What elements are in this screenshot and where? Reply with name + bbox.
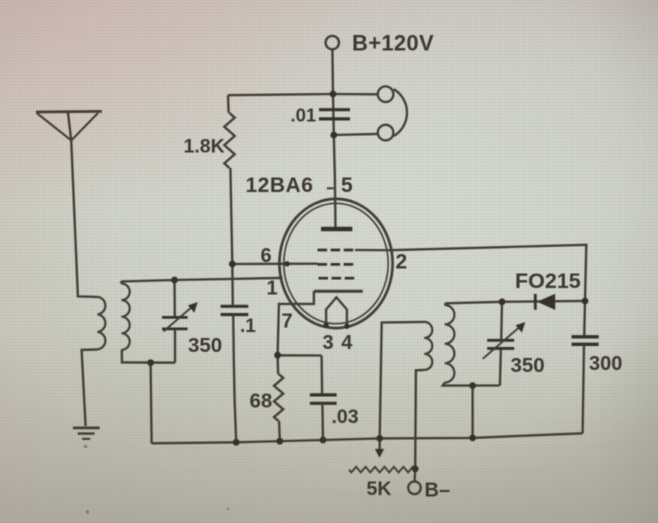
svg-text:5K: 5K [367,478,392,500]
svg-text:7: 7 [282,311,293,333]
svg-text:68: 68 [250,390,273,413]
svg-text:300: 300 [589,353,622,375]
svg-text:12BA6: 12BA6 [246,174,314,197]
svg-text:B–: B– [425,480,451,502]
svg-text:4: 4 [341,332,353,354]
svg-text:2: 2 [396,251,408,274]
svg-text:.01: .01 [291,105,317,126]
svg-text:.1: .1 [240,316,256,337]
svg-text:350: 350 [188,334,222,357]
svg-text:FO215: FO215 [515,269,581,293]
svg-text:.03: .03 [332,406,359,428]
svg-text:1: 1 [267,278,278,300]
svg-text:5: 5 [341,174,353,197]
svg-text:1.8K: 1.8K [184,136,225,158]
svg-text:3: 3 [323,332,334,354]
svg-text:6: 6 [261,245,272,267]
svg-text:B+120V: B+120V [352,31,434,56]
svg-text:350: 350 [511,354,545,377]
